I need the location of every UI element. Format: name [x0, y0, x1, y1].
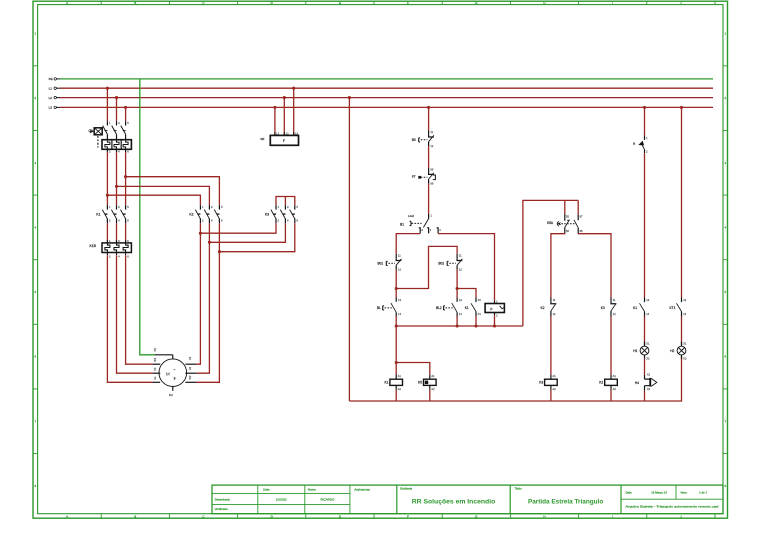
wire L2 to Q1 pole 2 — [116, 98, 118, 122]
wire horn to return bus — [644, 390, 646, 401]
svg-text:U2: U2 — [188, 366, 192, 370]
junction L1 RF tap — [292, 87, 295, 90]
svg-text:W1: W1 — [153, 357, 157, 361]
wire run bus riser to K5A — [523, 200, 578, 326]
svg-text:B1: B1 — [400, 222, 404, 226]
wire L3 to KT1 — [681, 107, 683, 297]
svg-text:Data: Data — [263, 487, 270, 491]
svg-text:RF: RF — [261, 137, 265, 141]
svg-text:Num:: Num: — [681, 491, 688, 495]
lamp contact K1 aux2 — [633, 298, 650, 317]
wire K3 pole2 to delta node 2 — [209, 223, 285, 242]
seal-in contact K1 aux — [465, 298, 482, 317]
timer coil K5 — [418, 374, 436, 391]
svg-text:X1: X1 — [647, 373, 651, 377]
svg-text:P: P — [490, 307, 492, 311]
wire BL to run bus — [395, 317, 397, 327]
svg-text:V2: V2 — [188, 356, 192, 360]
wire K3 star stub pole2 — [284, 197, 286, 206]
svg-text:K2: K2 — [599, 380, 603, 384]
wire L3 bus — [60, 106, 713, 108]
wire node B to K1 aux — [457, 289, 476, 298]
svg-text:L2: L2 — [49, 96, 53, 100]
wire K2 interlock to K3 coil — [550, 317, 552, 375]
svg-text:H2: H2 — [670, 349, 674, 353]
svg-text:K2: K2 — [189, 213, 193, 217]
wire L3 to B0 — [428, 107, 430, 130]
wire K1 to K1B pole3 — [125, 223, 127, 242]
svg-text:K2: K2 — [541, 306, 545, 310]
junction L3 lamp column 1 — [643, 106, 646, 109]
wire K5A right pole feed — [577, 200, 579, 214]
wire K2 pole1 to motor V2 — [197, 223, 201, 364]
svg-text:X1: X1 — [683, 342, 687, 346]
wire node B to BL2 — [456, 289, 458, 298]
svg-text:M: M — [166, 372, 170, 377]
motor M1 — [153, 348, 197, 397]
wire L1 to Q1 pole 1 — [106, 88, 108, 121]
svg-text:K3: K3 — [539, 380, 543, 384]
svg-text:~: ~ — [173, 368, 175, 372]
junction L2 control return — [348, 96, 351, 99]
svg-text:Arquivo Estrela - Triangulo ac: Arquivo Estrela - Triangulo acionamento … — [625, 504, 719, 508]
svg-text:X2: X2 — [683, 356, 687, 360]
wire K2 pole2 to motor U2 — [197, 223, 210, 373]
wire L3 to RF pin L1 — [274, 107, 276, 135]
wire F7 to selector B1 — [428, 183, 430, 214]
svg-text:BL: BL — [377, 306, 381, 310]
wire selector to manual branch — [396, 234, 420, 254]
wire PE bus — [60, 78, 713, 80]
svg-text:H4: H4 — [635, 381, 639, 385]
interlock contact K3 (NC) — [601, 298, 617, 317]
svg-text:U1: U1 — [153, 376, 157, 380]
wire K5A delta output to K3 interlock — [578, 233, 611, 297]
svg-text:A2: A2 — [553, 387, 557, 391]
svg-text:F: F — [407, 1, 409, 5]
junction L3 lamp column 2 — [680, 106, 683, 109]
svg-text:1 de 1: 1 de 1 — [699, 491, 707, 495]
wire K1 to K1B pole1 — [106, 223, 108, 242]
wire coil return bus — [349, 357, 681, 401]
svg-text:B0: B0 — [412, 138, 416, 142]
interlock contact K2 (NC) — [541, 298, 557, 317]
lamp H2 — [670, 342, 687, 361]
junction node B — [456, 287, 459, 290]
junction K2 pole3 bottom — [218, 250, 221, 253]
wire K1 to K1B pole2 — [116, 223, 118, 242]
svg-text:K1: K1 — [465, 306, 469, 310]
contactor K2 (delta) — [189, 205, 223, 223]
svg-text:KT1: KT1 — [670, 306, 676, 310]
wire switch a to K1 lamp contact — [644, 153, 646, 297]
wire K1 aux to run bus — [475, 317, 477, 327]
junction P1 / run bus — [493, 324, 496, 327]
svg-text:K1B: K1B — [90, 244, 97, 248]
junction L3 pole3 — [124, 106, 127, 109]
wire Q1 pole3 to K1 — [125, 152, 127, 205]
wire branch to K5 coil — [396, 363, 430, 375]
svg-text:B02: B02 — [438, 261, 444, 265]
stop pushbutton B0 — [412, 130, 434, 148]
svg-text:K3: K3 — [265, 213, 269, 217]
svg-text:I-0-II: I-0-II — [408, 214, 414, 218]
wire K3 star bridge — [276, 197, 295, 206]
junction K2 pole2 bottom — [208, 241, 211, 244]
svg-text:RICARDO: RICARDO — [320, 497, 335, 501]
junction BL / run bus — [395, 324, 398, 327]
wire B02 to node B — [456, 270, 458, 289]
wire K3 coil to return bus — [550, 390, 552, 401]
wire L2 bus — [60, 97, 713, 99]
svg-text:X2: X2 — [647, 387, 651, 391]
junction pole3 tap — [124, 175, 127, 178]
junction BL2 / run bus — [456, 324, 459, 327]
wire KT1 to lamp H2 — [681, 317, 683, 346]
wire L3 to switch a — [644, 107, 646, 135]
wire contact to lamp H1 — [644, 317, 646, 346]
svg-text:B: B — [134, 514, 136, 518]
svg-text:Desenhado: Desenhado — [215, 497, 231, 501]
junction L2 RF tap — [283, 96, 286, 99]
contactor K1 (main) — [96, 205, 129, 223]
timer changeover contact K5A — [547, 214, 583, 233]
thermal overload contact F7 — [412, 167, 436, 185]
svg-text:RR Soluções em Incendio: RR Soluções em Incendio — [412, 499, 495, 506]
junction K5 branch — [395, 361, 398, 364]
timer contact KT1 — [670, 298, 687, 317]
svg-text:K5A: K5A — [547, 221, 554, 225]
svg-text:K3: K3 — [601, 306, 605, 310]
wire K3 pole1 to delta node 1 — [200, 223, 276, 233]
svg-text:B01: B01 — [378, 261, 384, 265]
svg-text:L3: L3 — [49, 106, 53, 110]
wire pole2 to K2 pole2 — [117, 186, 210, 205]
svg-text:PE: PE — [49, 77, 53, 81]
start pushbutton BL2 — [436, 298, 462, 317]
wire L3 to Q1 pole 3 — [125, 107, 127, 121]
wire B01 to node A — [395, 270, 397, 289]
svg-text:3: 3 — [174, 377, 176, 381]
coil K2 — [599, 374, 617, 391]
start pushbutton BL — [377, 298, 402, 317]
junction node A — [395, 287, 398, 290]
svg-text:H1: H1 — [633, 349, 637, 353]
svg-text:Partida Estrela Triangulo: Partida Estrela Triangulo — [528, 499, 603, 506]
svg-text:A1: A1 — [613, 374, 617, 378]
lamp H1 — [633, 342, 650, 361]
svg-text:Entidade: Entidade — [400, 487, 412, 491]
svg-text:X2: X2 — [646, 356, 650, 360]
stop pushbutton B01 — [378, 254, 402, 272]
svg-text:Assinaturas: Assinaturas — [354, 487, 370, 491]
svg-text:K1: K1 — [384, 380, 388, 384]
svg-text:E: E — [339, 1, 341, 5]
wire node A to BL — [395, 289, 397, 298]
svg-text:F: F — [283, 139, 285, 143]
power feed module RF — [261, 131, 299, 145]
wire H1 to horn H4 — [644, 359, 646, 375]
wire K5 coil to return bus — [429, 390, 431, 401]
horn H4 — [635, 373, 657, 391]
wire run bus — [396, 325, 523, 327]
svg-text:A1: A1 — [431, 374, 435, 378]
junction K1 aux / run bus — [474, 324, 477, 327]
svg-text:PE: PE — [153, 348, 157, 352]
coil K1 — [384, 374, 402, 391]
wire K5A left pole feed — [564, 200, 566, 214]
wire pole1 to K2 pole1 — [107, 195, 200, 205]
svg-text:K5: K5 — [418, 380, 422, 384]
svg-text:13 Março 23: 13 Março 23 — [651, 491, 667, 495]
wire L1 bus — [60, 87, 713, 89]
junction L3 control feed — [427, 106, 430, 109]
svg-text:H: H — [543, 514, 545, 518]
svg-text:X1: X1 — [646, 342, 650, 346]
wire K1B to motor U1 — [126, 255, 153, 364]
wire K1 coil to return bus — [395, 390, 397, 401]
relay module P1 — [485, 299, 504, 317]
junction K2 pole1 bottom — [199, 232, 202, 235]
contactor K3 (star) — [265, 205, 299, 223]
svg-text:a: a — [633, 142, 635, 146]
wire bridge node A to B02 — [396, 246, 457, 288]
svg-text:BL2: BL2 — [436, 306, 442, 310]
svg-text:Data: Data — [626, 491, 632, 495]
svg-text:A2: A2 — [613, 387, 617, 391]
svg-text:A: A — [66, 514, 68, 518]
wire L2 to RF pin L2 — [283, 98, 285, 136]
svg-text:A: A — [66, 1, 68, 5]
svg-text:A2: A2 — [431, 387, 435, 391]
wire Q1 pole1 to K1 — [106, 152, 108, 205]
svg-text:V1: V1 — [153, 367, 157, 371]
stop pushbutton B02 — [438, 254, 462, 272]
circuit breaker Q1 — [88, 121, 131, 153]
svg-text:A2: A2 — [398, 387, 402, 391]
svg-text:Verificado: Verificado — [215, 507, 229, 511]
svg-text:Titulo: Titulo — [514, 487, 522, 491]
junction L3 RF tap — [273, 106, 276, 109]
svg-text:E: E — [339, 514, 341, 518]
svg-text:H: H — [543, 1, 545, 5]
wire L1 to RF pin L3 — [293, 88, 295, 135]
svg-text:F7: F7 — [412, 175, 416, 179]
wire K1B to motor W1 — [107, 255, 153, 382]
svg-text:10/2022: 10/2022 — [276, 497, 287, 501]
switch a — [633, 136, 648, 154]
svg-text:L1: L1 — [49, 86, 53, 90]
coil K3 — [539, 374, 557, 391]
svg-text:M1: M1 — [169, 393, 173, 397]
wire K2 coil to return bus — [610, 390, 612, 401]
wire BL2 to run bus — [456, 317, 458, 327]
wire BL to K1 coil — [395, 326, 397, 375]
junction L2 pole2 — [115, 96, 118, 99]
junction L1 pole1 — [106, 87, 109, 90]
svg-text:F: F — [407, 514, 409, 518]
wire K1B to motor V1 — [117, 255, 154, 373]
wire K5A star output to K2 interlock — [551, 233, 565, 297]
wire B0 to F7 — [428, 146, 430, 168]
svg-text:Nome: Nome — [308, 487, 316, 491]
wire K2 pole3 to motor W2 — [197, 223, 220, 382]
wire P1 to run bus — [494, 315, 496, 326]
wire pole3 to K2 pole3 — [126, 177, 220, 206]
svg-text:K1: K1 — [633, 306, 637, 310]
svg-text:W2: W2 — [188, 375, 192, 379]
wire selector to auto branch — [438, 234, 494, 301]
overload relay K1B — [90, 239, 132, 259]
svg-text:B: B — [134, 1, 136, 5]
svg-text:K1: K1 — [96, 213, 100, 217]
wire K3 pole3 to delta node 3 — [219, 223, 294, 252]
wire K3 interlock to K2 coil — [610, 317, 612, 375]
junction pole2 tap — [115, 185, 118, 188]
wire control return rail — [348, 98, 350, 401]
junction pole1 tap — [106, 194, 109, 197]
wire PE drop to motor — [140, 79, 155, 355]
svg-text:A1: A1 — [553, 374, 557, 378]
svg-text:A1: A1 — [398, 374, 402, 378]
selector switch B1 I-0-II — [400, 214, 441, 234]
wire Q1 pole2 to K1 — [116, 152, 118, 205]
